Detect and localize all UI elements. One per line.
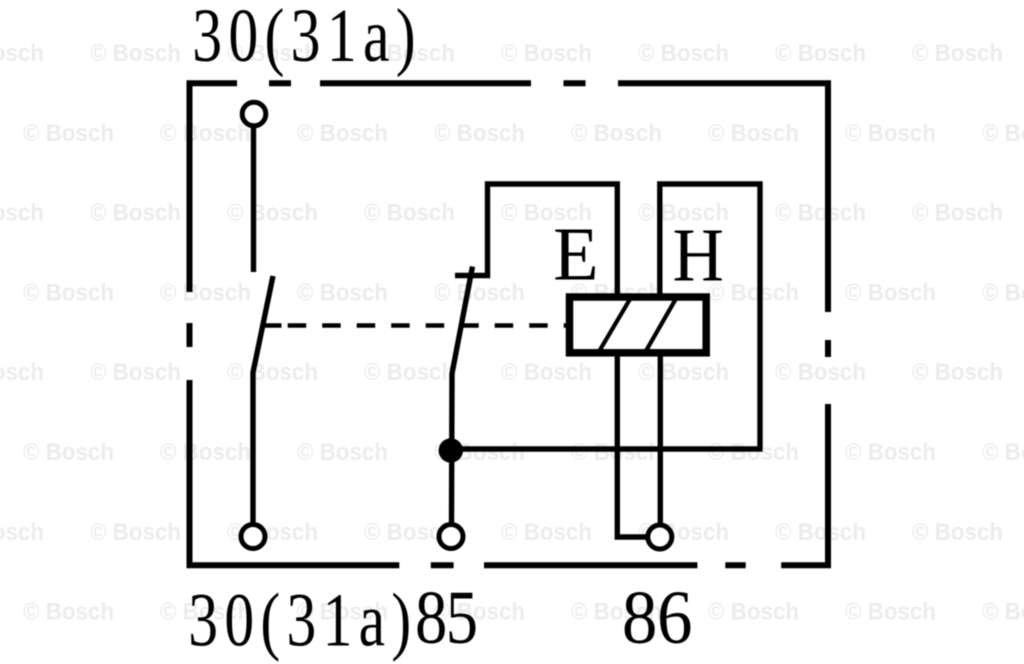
svg-text:© Bosch: © Bosch [434,120,525,147]
svg-text:© Bosch: © Bosch [845,439,936,466]
svg-text:© Bosch: © Bosch [845,120,936,147]
svg-text:© Bosch: © Bosch [708,120,799,147]
coil hatch stroke 2 [646,298,677,352]
svg-text:© Bosch: © Bosch [297,120,388,147]
svg-text:© Bosch: © Bosch [364,359,455,386]
svg-text:© Bosch: © Bosch [0,40,44,67]
svg-text:30(31a): 30(31a) [192,0,422,78]
svg-text:© Bosch: © Bosch [160,279,251,306]
svg-text:© Bosch: © Bosch [227,359,318,386]
svg-text:© Bosch: © Bosch [775,519,866,546]
svg-text:© Bosch: © Bosch [0,519,44,546]
svg-text:© Bosch: © Bosch [708,599,799,626]
svg-text:© Bosch: © Bosch [982,599,1024,626]
svg-text:© Bosch: © Bosch [23,599,114,626]
terminal 30(31a) top circle [242,102,266,126]
svg-text:E: E [553,213,599,297]
svg-text:© Bosch: © Bosch [297,439,388,466]
junction dot node 85 [439,438,463,462]
svg-text:© Bosch: © Bosch [90,519,181,546]
svg-text:© Bosch: © Bosch [638,40,729,67]
svg-text:© Bosch: © Bosch [912,519,1003,546]
svg-text:© Bosch: © Bosch [23,279,114,306]
svg-text:© Bosch: © Bosch [845,279,936,306]
svg-text:© Bosch: © Bosch [501,359,592,386]
bottom wire from junction 85 to H branch [451,446,763,451]
svg-text:© Bosch: © Bosch [0,359,44,386]
svg-text:© Bosch: © Bosch [775,40,866,67]
svg-text:© Bosch: © Bosch [912,40,1003,67]
coil E lead to terminal 86 [617,356,648,537]
terminal 30(31a) bottom circle [241,525,265,549]
svg-text:86: 86 [622,575,692,660]
svg-text:© Bosch: © Bosch [982,279,1024,306]
svg-text:© Bosch: © Bosch [90,200,181,227]
svg-text:© Bosch: © Bosch [638,359,729,386]
terminal 86 circle [648,525,672,549]
dashed actuation link line [262,323,282,328]
wire from terminal 30(31a) to switch fixed contact [251,127,256,272]
svg-text:© Bosch: © Bosch [297,279,388,306]
svg-text:© Bosch: © Bosch [90,359,181,386]
svg-text:© Bosch: © Bosch [160,120,251,147]
svg-text:© Bosch: © Bosch [845,599,936,626]
svg-text:© Bosch: © Bosch [0,200,44,227]
svg-text:© Bosch: © Bosch [364,200,455,227]
svg-text:© Bosch: © Bosch [775,359,866,386]
svg-text:© Bosch: © Bosch [501,519,592,546]
terminal 85 circle [439,525,463,549]
H branch wire (right winding feed) [660,184,760,449]
coil H lead to terminal 86 [658,356,663,526]
svg-text:© Bosch: © Bosch [982,439,1024,466]
svg-text:© Bosch: © Bosch [23,439,114,466]
svg-text:© Bosch: © Bosch [912,200,1003,227]
svg-text:© Bosch: © Bosch [982,120,1024,147]
svg-text:© Bosch: © Bosch [160,439,251,466]
svg-text:© Bosch: © Bosch [90,40,181,67]
coil hatch stroke 1 [599,298,631,352]
relay housing outline [190,83,829,565]
relay coil box E/H [570,297,707,353]
E branch wire (left winding feed) [455,184,617,296]
switch movable contact arm (85 branch) [452,267,473,526]
svg-text:H: H [673,213,724,298]
svg-text:© Bosch: © Bosch [227,200,318,227]
svg-text:85: 85 [415,576,477,660]
svg-text:© Bosch: © Bosch [912,359,1003,386]
svg-text:© Bosch: © Bosch [23,120,114,147]
svg-text:30(31a): 30(31a) [188,578,417,663]
svg-text:© Bosch: © Bosch [775,200,866,227]
svg-text:© Bosch: © Bosch [708,439,799,466]
svg-text:© Bosch: © Bosch [571,120,662,147]
svg-text:© Bosch: © Bosch [501,40,592,67]
svg-text:© Bosch: © Bosch [434,279,525,306]
switch movable contact arm (30 branch) [253,276,273,524]
